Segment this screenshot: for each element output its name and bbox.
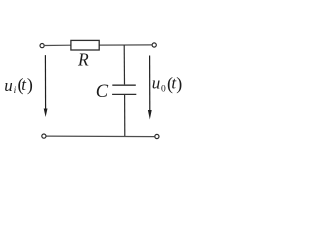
svg-text:i: i [14,86,17,96]
svg-text:): ) [27,75,33,96]
svg-text:C: C [96,82,109,102]
svg-text:0: 0 [161,85,166,95]
svg-text:u: u [4,76,13,95]
svg-text:R: R [77,49,89,69]
svg-text:): ) [176,73,182,94]
svg-text:u: u [152,73,161,92]
